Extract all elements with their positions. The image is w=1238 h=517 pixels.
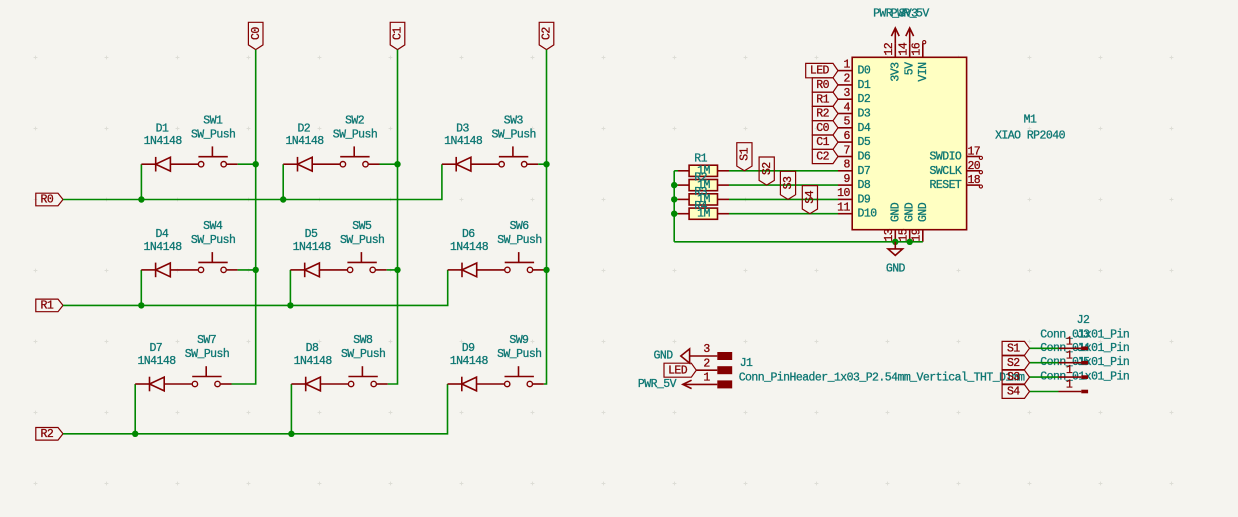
svg-text:8: 8 bbox=[843, 159, 850, 172]
svg-text:D3: D3 bbox=[858, 108, 871, 121]
wire stub D4 bbox=[140, 270, 142, 306]
switch SW1 bbox=[198, 162, 203, 167]
svg-text:XIAO RP2040: XIAO RP2040 bbox=[995, 129, 1066, 142]
wire S4 to J5 bbox=[1030, 391, 1059, 393]
junction SW2 x column bbox=[394, 161, 400, 167]
pin 13 GND bbox=[894, 230, 896, 242]
svg-text:1: 1 bbox=[1066, 350, 1073, 363]
label C0 bbox=[812, 121, 838, 135]
pin 15 GND bbox=[909, 230, 911, 242]
wire column C1 bbox=[388, 50, 398, 384]
pin 4 D3 bbox=[838, 113, 852, 115]
wire S1 to J2 bbox=[1030, 347, 1059, 349]
junction SW1 x column bbox=[253, 161, 259, 167]
svg-text:C0: C0 bbox=[816, 122, 829, 135]
svg-text:D6: D6 bbox=[462, 228, 475, 241]
svg-text:1N4148: 1N4148 bbox=[450, 241, 489, 254]
svg-text:D9: D9 bbox=[858, 193, 871, 206]
svg-text:1M: 1M bbox=[697, 208, 710, 221]
svg-text:D7: D7 bbox=[149, 342, 162, 355]
svg-text:VIN: VIN bbox=[917, 63, 930, 82]
svg-text:1N4148: 1N4148 bbox=[450, 355, 489, 368]
svg-text:2: 2 bbox=[843, 73, 850, 86]
svg-text:1N4148: 1N4148 bbox=[293, 241, 332, 254]
label R1 bbox=[812, 92, 838, 106]
J1 pad pin 2 bbox=[717, 366, 732, 374]
svg-text:R0: R0 bbox=[816, 79, 829, 92]
label S1 at J bbox=[1002, 341, 1029, 355]
svg-text:1N4148: 1N4148 bbox=[294, 355, 333, 368]
svg-text:1N4148: 1N4148 bbox=[137, 355, 176, 368]
svg-text:SW9: SW9 bbox=[509, 334, 529, 347]
diode D6 bbox=[448, 269, 462, 271]
svg-text:S4: S4 bbox=[1007, 386, 1020, 399]
label C1 bbox=[812, 135, 838, 149]
switch SW8 bbox=[348, 381, 353, 386]
svg-text:3: 3 bbox=[843, 87, 850, 100]
wire R4 to MCU pin 11 bbox=[729, 213, 838, 215]
svg-text:R0: R0 bbox=[41, 194, 54, 207]
label LED at J1 bbox=[664, 363, 696, 377]
svg-text:LED: LED bbox=[810, 65, 830, 78]
wire stub D2 bbox=[282, 164, 284, 199]
svg-text:20: 20 bbox=[967, 160, 980, 173]
power symbol arrow x=895.3 bbox=[894, 28, 896, 43]
svg-text:D8: D8 bbox=[306, 342, 319, 355]
svg-text:1M: 1M bbox=[697, 165, 710, 178]
svg-text:SWCLK: SWCLK bbox=[930, 165, 962, 178]
svg-text:19: 19 bbox=[911, 228, 924, 241]
J5 pin line + pad bbox=[1059, 391, 1082, 393]
wire row R1 bbox=[63, 270, 448, 306]
svg-text:D3: D3 bbox=[456, 122, 469, 135]
label S2 at J bbox=[1002, 356, 1029, 370]
pin 2 D1 bbox=[838, 84, 852, 86]
resistor R2 body bbox=[689, 180, 717, 191]
pin 17 SWDIO bbox=[967, 156, 980, 158]
svg-text:SW_Push: SW_Push bbox=[341, 348, 385, 361]
J1 pin3 line bbox=[690, 355, 718, 357]
svg-text:S1: S1 bbox=[739, 147, 752, 160]
wire row R0 bbox=[63, 164, 442, 199]
wire SW2 to column bbox=[380, 163, 398, 165]
resistor R3 leads bbox=[678, 198, 689, 200]
label R2 bbox=[36, 428, 63, 441]
label R2 bbox=[812, 106, 838, 120]
svg-text:17: 17 bbox=[967, 146, 980, 159]
svg-text:D9: D9 bbox=[462, 342, 475, 355]
svg-text:LED: LED bbox=[668, 364, 688, 377]
svg-text:SW_Push: SW_Push bbox=[333, 128, 377, 141]
wire S3 to J4 bbox=[1030, 376, 1059, 378]
J1 pad pin 3 bbox=[717, 352, 732, 360]
svg-text:SW4: SW4 bbox=[203, 220, 223, 233]
svg-text:3: 3 bbox=[703, 343, 710, 356]
svg-text:D2: D2 bbox=[858, 93, 871, 106]
diode D2 bbox=[283, 163, 297, 165]
resistor R4 body bbox=[689, 208, 717, 219]
wire R3 to MCU pin 10 bbox=[729, 198, 838, 200]
wire SW1 to column bbox=[238, 163, 256, 165]
junction GND pin15 bbox=[907, 239, 913, 245]
svg-text:18: 18 bbox=[967, 174, 980, 187]
wire common to GND bbox=[674, 241, 923, 243]
J1 pad pin 1 bbox=[717, 380, 732, 388]
svg-text:J2: J2 bbox=[1077, 314, 1090, 327]
wire S2 to J3 bbox=[1030, 362, 1059, 364]
wire column C0 bbox=[232, 50, 256, 384]
svg-text:SW_Push: SW_Push bbox=[185, 348, 229, 361]
svg-text:1N4148: 1N4148 bbox=[285, 135, 324, 148]
svg-text:1M: 1M bbox=[697, 193, 710, 206]
svg-text:C1: C1 bbox=[816, 136, 829, 149]
pin 9 D8 bbox=[838, 184, 852, 186]
J1 pin1 line + PWR_5V arrow bbox=[683, 383, 718, 385]
unconnected circle pin 16 bbox=[923, 41, 926, 44]
svg-text:SW1: SW1 bbox=[203, 114, 223, 127]
pin 11 D10 bbox=[838, 213, 852, 215]
diode D9 bbox=[448, 383, 462, 385]
svg-text:SW8: SW8 bbox=[353, 334, 373, 347]
label S3 bbox=[780, 171, 795, 199]
svg-text:R1: R1 bbox=[816, 93, 829, 106]
svg-text:C0: C0 bbox=[250, 27, 263, 40]
label S4 bbox=[802, 186, 817, 214]
svg-text:RESET: RESET bbox=[930, 179, 962, 192]
svg-text:SW5: SW5 bbox=[352, 220, 372, 233]
svg-text:SW7: SW7 bbox=[197, 334, 216, 347]
svg-text:M1: M1 bbox=[1024, 113, 1037, 126]
svg-text:J3: J3 bbox=[1077, 328, 1090, 341]
pin 19 GND bbox=[922, 230, 924, 242]
svg-text:6: 6 bbox=[843, 130, 850, 143]
wire row R2 bbox=[63, 384, 448, 434]
pin 8 D7 bbox=[838, 170, 852, 172]
label S2 bbox=[759, 157, 774, 185]
diode D4 bbox=[141, 269, 155, 271]
pin 16 VIN bbox=[922, 43, 924, 57]
pin 12 3V3 bbox=[894, 43, 896, 57]
switch SW9 bbox=[505, 381, 510, 386]
pin 20 SWCLK bbox=[967, 170, 980, 172]
label C0 bbox=[248, 22, 263, 49]
pin 6 D5 bbox=[838, 141, 852, 143]
resistor R2 leads bbox=[678, 184, 689, 186]
pin 5 D4 bbox=[838, 127, 852, 129]
svg-text:1: 1 bbox=[843, 58, 850, 71]
diode D1 bbox=[141, 163, 155, 165]
wire R1 to MCU pin 8 bbox=[729, 170, 838, 172]
junction row R0 x D2 bbox=[280, 196, 286, 202]
svg-text:11: 11 bbox=[837, 202, 850, 215]
svg-text:2: 2 bbox=[703, 357, 710, 370]
svg-text:D0: D0 bbox=[858, 65, 871, 78]
svg-text:4: 4 bbox=[843, 101, 850, 114]
svg-text:R2: R2 bbox=[816, 108, 829, 121]
svg-text:SW_Push: SW_Push bbox=[191, 128, 235, 141]
junction resistor common bbox=[671, 182, 677, 188]
svg-text:1: 1 bbox=[1066, 379, 1073, 392]
svg-text:1N4148: 1N4148 bbox=[444, 135, 483, 148]
svg-text:D2: D2 bbox=[297, 122, 310, 135]
diode D3 bbox=[442, 163, 456, 165]
svg-text:GND: GND bbox=[904, 202, 917, 222]
label S1 bbox=[737, 143, 752, 171]
label R0 bbox=[812, 78, 838, 92]
label C2 bbox=[812, 149, 838, 163]
svg-text:SW_Push: SW_Push bbox=[340, 234, 384, 247]
svg-text:S2: S2 bbox=[1007, 357, 1020, 370]
wire stub D7 bbox=[134, 384, 136, 434]
junction row R2 x D7 bbox=[132, 431, 138, 437]
svg-text:SW2: SW2 bbox=[345, 114, 365, 127]
J1 pin2 line bbox=[696, 369, 717, 371]
svg-text:1N4148: 1N4148 bbox=[144, 135, 183, 148]
svg-text:D6: D6 bbox=[858, 151, 871, 164]
pin 1 D0 bbox=[838, 70, 852, 72]
wire stub D1 bbox=[140, 164, 142, 199]
label S4 at J bbox=[1002, 385, 1029, 399]
svg-text:S3: S3 bbox=[782, 176, 795, 189]
svg-text:R2: R2 bbox=[41, 428, 54, 441]
wire stub D5 bbox=[289, 270, 291, 306]
junction row R1 x D5 bbox=[287, 302, 293, 308]
wire SW3 to column bbox=[538, 163, 546, 165]
svg-text:9: 9 bbox=[843, 173, 850, 186]
svg-text:GND: GND bbox=[886, 262, 906, 275]
ground symbol GND bbox=[894, 242, 896, 249]
svg-text:D10: D10 bbox=[858, 208, 878, 221]
junction row R0 x D1 bbox=[138, 196, 144, 202]
svg-text:1: 1 bbox=[703, 372, 710, 385]
svg-text:C2: C2 bbox=[541, 27, 554, 40]
svg-text:D4: D4 bbox=[858, 122, 871, 135]
svg-text:GND: GND bbox=[889, 202, 902, 222]
switch SW4 bbox=[198, 267, 203, 272]
svg-text:S4: S4 bbox=[804, 190, 817, 203]
svg-text:PWR_5V: PWR_5V bbox=[891, 7, 930, 20]
svg-text:GND: GND bbox=[917, 202, 930, 222]
J3 pin line + pad bbox=[1059, 362, 1082, 364]
svg-text:S3: S3 bbox=[1007, 371, 1020, 384]
junction SW5 x column bbox=[394, 267, 400, 273]
wire SW4 to column bbox=[238, 269, 256, 271]
label LED bbox=[806, 63, 838, 77]
junction SW6 x column bbox=[543, 267, 549, 273]
svg-text:16: 16 bbox=[911, 42, 924, 55]
svg-text:PWR_5V: PWR_5V bbox=[638, 378, 677, 391]
wire SW5 to column bbox=[387, 269, 398, 271]
svg-text:1: 1 bbox=[1066, 335, 1073, 348]
svg-text:GND: GND bbox=[654, 350, 674, 363]
pin 10 D9 bbox=[838, 198, 852, 200]
resistor R1 leads bbox=[678, 170, 689, 172]
pin 18 RESET bbox=[967, 184, 980, 186]
diode D5 bbox=[290, 269, 304, 271]
J2 pin line + pad bbox=[1059, 347, 1082, 349]
svg-text:D7: D7 bbox=[858, 165, 871, 178]
svg-text:SW6: SW6 bbox=[510, 220, 530, 233]
wire SW6 to column bbox=[544, 269, 547, 271]
resistor R3 body bbox=[689, 194, 717, 205]
svg-text:10: 10 bbox=[837, 187, 850, 200]
pin 14 5V bbox=[909, 43, 911, 57]
svg-text:D5: D5 bbox=[858, 136, 871, 149]
svg-text:1N4148: 1N4148 bbox=[144, 241, 183, 254]
power symbol arrow x=909.7 bbox=[909, 28, 911, 43]
svg-text:D4: D4 bbox=[156, 228, 169, 241]
svg-text:D1: D1 bbox=[156, 122, 169, 135]
svg-text:S1: S1 bbox=[1007, 342, 1020, 355]
svg-text:D5: D5 bbox=[305, 228, 318, 241]
junction SW3 x column bbox=[543, 161, 549, 167]
diode D7 bbox=[135, 383, 149, 385]
svg-text:R1: R1 bbox=[41, 300, 54, 313]
svg-text:12: 12 bbox=[883, 42, 896, 55]
svg-text:SW_Push: SW_Push bbox=[191, 234, 235, 247]
label C2 bbox=[539, 22, 554, 49]
wire resistor common left bbox=[673, 171, 675, 242]
svg-text:SW3: SW3 bbox=[504, 114, 524, 127]
wire R2 to MCU pin 9 bbox=[729, 184, 838, 186]
diode D8 bbox=[291, 383, 305, 385]
svg-text:Conn_PinHeader_1x03_P2.54mm_Ve: Conn_PinHeader_1x03_P2.54mm_Vertical_THT… bbox=[739, 371, 1025, 384]
svg-text:D8: D8 bbox=[858, 179, 871, 192]
resistor R1 body bbox=[689, 165, 717, 176]
junction row R1 x D4 bbox=[138, 302, 144, 308]
power symbol GND at J1 bbox=[681, 349, 690, 363]
svg-text:SW_Push: SW_Push bbox=[491, 128, 535, 141]
junction SW4 x column bbox=[253, 267, 259, 273]
pin 7 D6 bbox=[838, 156, 852, 158]
svg-text:C2: C2 bbox=[816, 151, 829, 164]
svg-text:J1: J1 bbox=[740, 357, 753, 370]
switch SW5 bbox=[347, 267, 352, 272]
svg-text:5V: 5V bbox=[904, 62, 917, 75]
switch SW6 bbox=[505, 267, 510, 272]
svg-text:3V3: 3V3 bbox=[889, 62, 902, 82]
label R0 bbox=[36, 193, 63, 206]
label R1 bbox=[36, 299, 63, 312]
label S3 at J bbox=[1002, 370, 1029, 384]
svg-text:D1: D1 bbox=[858, 79, 871, 92]
switch SW3 bbox=[499, 162, 504, 167]
label C1 bbox=[390, 22, 405, 49]
resistor R4 leads bbox=[678, 213, 689, 215]
junction GND pin13 bbox=[892, 239, 898, 245]
svg-text:SWDIO: SWDIO bbox=[930, 151, 962, 164]
svg-text:SW_Push: SW_Push bbox=[497, 348, 541, 361]
switch SW7 bbox=[192, 381, 197, 386]
svg-text:1M: 1M bbox=[697, 179, 710, 192]
switch SW2 bbox=[340, 162, 345, 167]
svg-text:SW_Push: SW_Push bbox=[497, 234, 541, 247]
wire column C2 bbox=[544, 50, 547, 384]
MCU U/M1 body XIAO RP2040 bbox=[852, 57, 966, 229]
svg-text:C1: C1 bbox=[392, 27, 405, 40]
junction row R2 x D8 bbox=[288, 431, 294, 437]
J4 pin line + pad bbox=[1059, 376, 1082, 378]
svg-text:14: 14 bbox=[898, 42, 911, 55]
svg-text:7: 7 bbox=[843, 144, 849, 157]
wire stub D8 bbox=[290, 384, 292, 434]
svg-text:S2: S2 bbox=[761, 162, 774, 175]
svg-text:5: 5 bbox=[843, 116, 850, 129]
svg-text:1: 1 bbox=[1066, 364, 1073, 377]
pin 3 D2 bbox=[838, 98, 852, 100]
